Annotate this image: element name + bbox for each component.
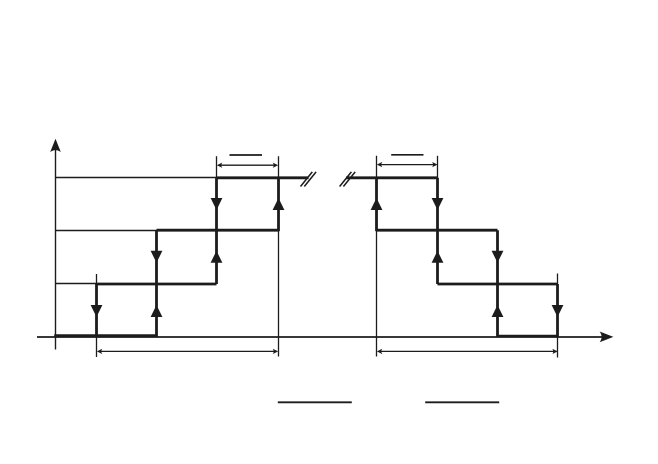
- left staircase step L1: [97, 283, 217, 286]
- extension line above right V6: [437, 156, 439, 178]
- left vertical V1 with down arrow: [91, 284, 103, 338]
- extension line above left V3: [216, 156, 218, 178]
- right extension line V8: [557, 274, 559, 358]
- right staircase step L3: [346, 176, 438, 179]
- left staircase step L3: [217, 176, 309, 179]
- top-right blank label line: [391, 154, 423, 156]
- right vertical V6 with down and up arrows: [432, 178, 444, 284]
- left staircase step L2: [157, 229, 279, 232]
- reference line level L1: [56, 283, 97, 285]
- right vertical V7 with down and up arrows: [492, 230, 504, 337]
- bottom-left blank label line: [278, 401, 352, 403]
- left extension line V1: [96, 274, 98, 357]
- right vertical V8 with down arrow: [552, 284, 564, 338]
- top-left blank label line: [230, 154, 263, 156]
- left break slash: [301, 172, 317, 187]
- extension line through left V4: [278, 156, 280, 356]
- reference line level L3: [56, 177, 217, 179]
- y-axis: [50, 139, 61, 350]
- left staircase step L0: [54, 334, 156, 337]
- left vertical V4 with up arrow: [273, 178, 285, 231]
- right staircase step L1: [438, 283, 558, 286]
- x-axis: [37, 332, 613, 343]
- right staircase step L0: [498, 335, 558, 338]
- bottom-left dimension arrow: [97, 349, 278, 354]
- bottom-right blank label line: [425, 401, 499, 403]
- extension line through right V5: [376, 156, 378, 357]
- top-left dimension arrow: [217, 163, 278, 168]
- right staircase step L2: [377, 229, 498, 232]
- right vertical V5 with up arrow: [371, 178, 383, 231]
- bottom-right dimension arrow: [377, 349, 558, 354]
- right break slash: [340, 172, 356, 187]
- left vertical V2 with up and down arrows: [151, 230, 163, 337]
- left vertical V3 with up and down arrows: [211, 178, 223, 284]
- reference line level L2: [56, 230, 157, 232]
- top-right dimension arrow: [377, 162, 438, 167]
